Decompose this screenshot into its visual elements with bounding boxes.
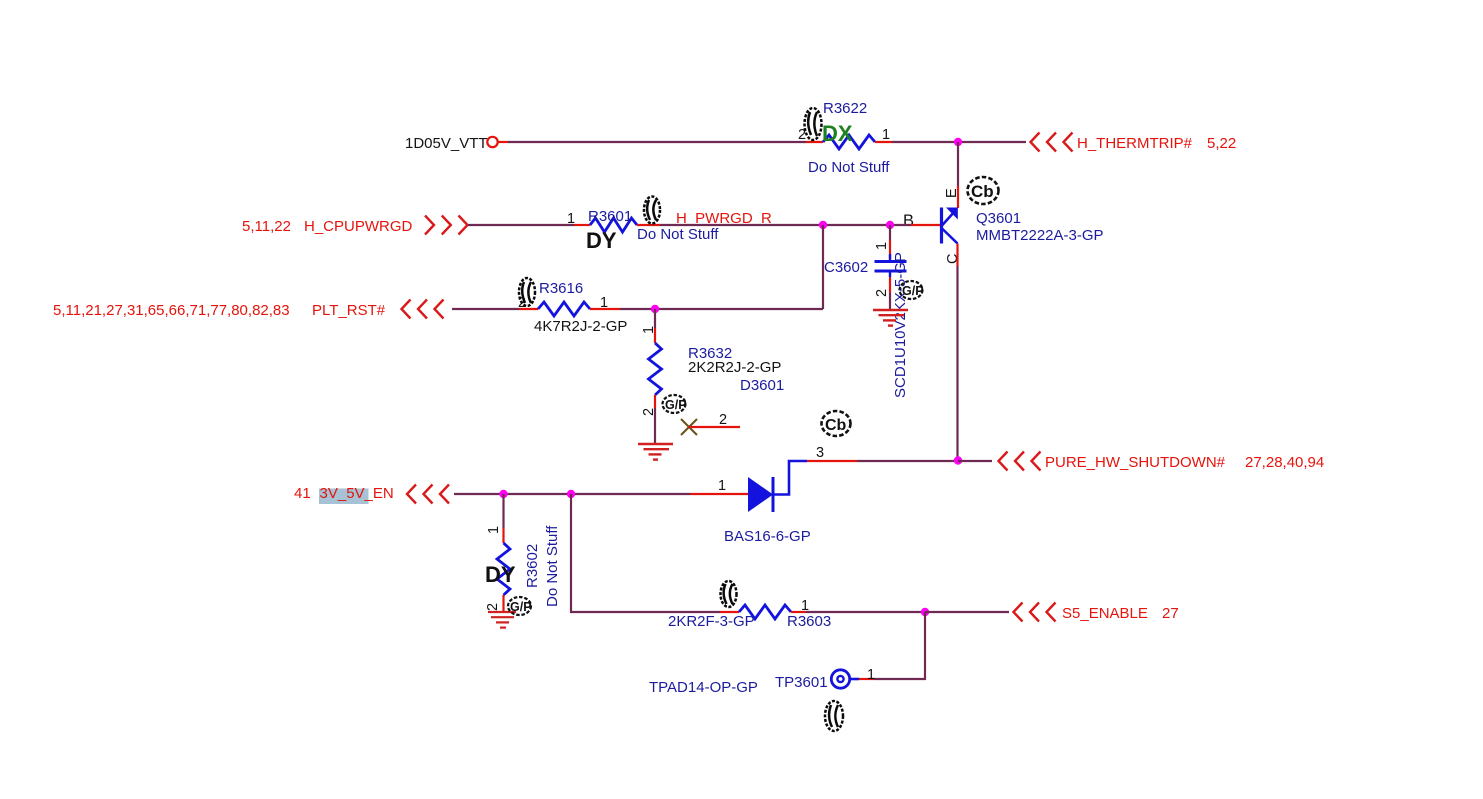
- off-page connector PLT_RST#: [402, 300, 444, 319]
- pin 1 of TP3601: [859, 678, 874, 680]
- off-page connector PURE_HW_SHUTDOWN#: [999, 452, 1041, 471]
- stamp Cb near D3601: [822, 411, 851, 436]
- svg-text:1: 1: [641, 326, 657, 334]
- junction node S5_ENABLE branch: [567, 490, 575, 498]
- svg-text:D3601: D3601: [740, 377, 784, 394]
- svg-text:1: 1: [867, 667, 875, 683]
- junction node to PLT_RST branch: [819, 221, 827, 229]
- junction node S5_ENABLE: [921, 608, 929, 616]
- svg-text:G/P: G/P: [902, 284, 924, 298]
- wire C3602 to ground: [889, 293, 891, 309]
- wire R3616 to H_PWRGD node: [620, 308, 823, 310]
- svg-text:41: 41: [294, 485, 311, 502]
- svg-text:2K2R2J-2-GP: 2K2R2J-2-GP: [688, 359, 781, 376]
- svg-text:SCD1U10V2KX-5-GP: SCD1U10V2KX-5-GP: [892, 252, 909, 398]
- net label S5_ENABLE 27: [1062, 605, 1179, 622]
- off-page connector S5_ENABLE: [1014, 603, 1056, 622]
- net label 5,11,22 H_CPUPWRGD: [242, 218, 413, 235]
- transistor Q3601: [942, 208, 958, 244]
- svg-text:PLT_RST#: PLT_RST#: [312, 302, 386, 319]
- pin 1 of R3632: [654, 328, 656, 343]
- stamp near R3603: [721, 581, 737, 607]
- svg-text:G/P: G/P: [665, 398, 687, 412]
- svg-text:1: 1: [567, 211, 575, 227]
- stamp G/P near R3632: [663, 395, 687, 413]
- off-page connector 3V_5V_EN: [407, 485, 449, 504]
- wire 3V_5V_EN: [454, 493, 571, 495]
- svg-text:R3601: R3601: [588, 208, 632, 225]
- wire junction down to C3602: [889, 225, 891, 240]
- svg-text:Do Not Stuff: Do Not Stuff: [808, 159, 890, 176]
- svg-text:BAS16-6-GP: BAS16-6-GP: [724, 528, 811, 545]
- resistor R3616: [538, 302, 590, 316]
- wire R3603 to junction: [806, 611, 925, 613]
- wire R3601 to Q3601 base: [660, 224, 911, 226]
- net label 5,11,21,27,31,65,66,71,77,80,82,83 PLT_RST#: [53, 302, 386, 319]
- svg-text:MMBT2222A-3-GP: MMBT2222A-3-GP: [976, 227, 1104, 244]
- wire 3V_5V_EN junction to D3601: [571, 493, 690, 495]
- wire junction to off-page connector: [958, 460, 992, 462]
- stamp G/P near R3602: [508, 597, 532, 615]
- stamp near R3601: [644, 197, 660, 224]
- svg-text:TP3601: TP3601: [775, 674, 828, 691]
- net label H_THERMTRIP# 5,22: [1077, 135, 1236, 152]
- pin 1 of C3602: [889, 240, 891, 259]
- capacitor C3602: [875, 254, 907, 277]
- wire PLT_RST# to R3616: [452, 308, 519, 310]
- svg-text:H_THERMTRIP#: H_THERMTRIP#: [1077, 135, 1193, 152]
- wire junction down to Q3601 emitter: [957, 142, 959, 186]
- wire H_CPUPWRGD to R3601: [468, 224, 574, 226]
- svg-text:1D05V_VTT: 1D05V_VTT: [405, 135, 488, 152]
- svg-text:DY: DY: [586, 228, 617, 253]
- pin E of Q3601: [957, 186, 959, 208]
- stamp below TP3601: [825, 701, 843, 731]
- svg-text:R3603: R3603: [787, 613, 831, 630]
- pin 2 of C3602: [889, 277, 891, 293]
- wire R3632 to ground: [654, 408, 656, 443]
- svg-text:5,11,21,27,31,65,66,71,77,80,8: 5,11,21,27,31,65,66,71,77,80,82,83: [53, 302, 290, 319]
- svg-text:27,28,40,94: 27,28,40,94: [1245, 454, 1324, 471]
- svg-text:2: 2: [485, 603, 501, 611]
- svg-text:E: E: [944, 188, 960, 198]
- wire junction down to R3602: [502, 494, 504, 528]
- wire junction down and right to R3603: [571, 494, 720, 612]
- resistor R3602 (Do Not Stuff, DY): [497, 543, 510, 595]
- svg-text:1: 1: [486, 526, 502, 534]
- svg-text:R3622: R3622: [823, 100, 867, 117]
- svg-text:TPAD14-OP-GP: TPAD14-OP-GP: [649, 679, 758, 696]
- stamp near R3622: [805, 108, 822, 140]
- svg-text:3: 3: [816, 445, 824, 461]
- wire junction down to R3632: [654, 309, 656, 328]
- net label 41 3V_5V_EN (highlighted): [294, 485, 394, 504]
- svg-text:2: 2: [874, 289, 890, 297]
- svg-text:R3616: R3616: [539, 280, 583, 297]
- stamp near R3616: [519, 278, 535, 306]
- junction node PURE_HW_SHUTDOWN: [954, 456, 962, 464]
- no-connect X on D3601 pin 2: [681, 419, 697, 435]
- ground under R3632: [638, 444, 673, 460]
- svg-text:Q3601: Q3601: [976, 210, 1021, 227]
- ground under R3602: [488, 612, 516, 628]
- svg-text:R3602: R3602: [524, 544, 541, 588]
- pin 1 of R3603: [791, 611, 806, 613]
- junction node R3632/PLT_RST: [651, 305, 659, 313]
- junction node to C3602 branch: [886, 221, 894, 229]
- test point TP3601: [831, 670, 859, 688]
- ground under C3602: [873, 310, 908, 326]
- junction node H_THERMTRIP: [954, 138, 962, 146]
- svg-text:C3602: C3602: [824, 259, 868, 276]
- wire D3601 to PURE_HW_SHUTDOWN junction: [857, 460, 958, 462]
- svg-text:4K7R2J-2-GP: 4K7R2J-2-GP: [534, 318, 627, 335]
- svg-text:1: 1: [874, 242, 890, 250]
- wire junction down and left to TP3601: [874, 612, 925, 679]
- stamp G/P near C3602: [900, 281, 924, 299]
- pin 2 of D3601: [689, 426, 740, 428]
- pin 2 of R3632: [654, 395, 656, 408]
- wire R3622 to junction: [892, 141, 1026, 143]
- resistor R3632: [649, 343, 662, 395]
- svg-text:2: 2: [719, 412, 727, 428]
- svg-text:Do Not Stuff: Do Not Stuff: [544, 525, 561, 607]
- resistor R3601 (Do Not Stuff, DY): [574, 208, 719, 253]
- svg-text:S5_ENABLE: S5_ENABLE: [1062, 605, 1148, 622]
- pin 1 of R3602: [502, 528, 504, 543]
- svg-text:H_CPUPWRGD: H_CPUPWRGD: [304, 218, 413, 235]
- svg-text:DY: DY: [485, 562, 516, 587]
- svg-text:1: 1: [882, 127, 890, 143]
- svg-text:Do Not Stuff: Do Not Stuff: [637, 226, 719, 243]
- pin 2 of R3616: [519, 308, 538, 310]
- off-page connector H_THERMTRIP#: [1031, 133, 1073, 152]
- svg-text:3V_5V_EN: 3V_5V_EN: [320, 485, 394, 502]
- resistor R3622 (Do Not Stuff, DX): [806, 100, 892, 176]
- svg-text:Cb: Cb: [971, 182, 994, 201]
- svg-text:G/P: G/P: [510, 600, 532, 614]
- svg-text:27: 27: [1162, 605, 1179, 622]
- svg-text:1: 1: [718, 478, 726, 494]
- svg-text:5,22: 5,22: [1207, 135, 1236, 152]
- svg-text:5,11,22: 5,11,22: [242, 218, 291, 235]
- wire junction to off-page connector: [925, 611, 1009, 613]
- off-page connector H_CPUPWRGD: [425, 216, 468, 235]
- svg-text:B: B: [903, 212, 914, 230]
- net label PURE_HW_SHUTDOWN# 27,28,40,94: [1045, 454, 1324, 471]
- svg-text:Cb: Cb: [825, 417, 847, 434]
- pin 2 of R3603: [720, 611, 739, 613]
- pin 1 of R3616: [590, 308, 620, 310]
- svg-text:DX: DX: [822, 121, 853, 146]
- power terminal 1D05V_VTT: [405, 135, 508, 152]
- junction node R3602 branch: [499, 490, 507, 498]
- wire up to H_PWRGD junction: [822, 225, 824, 309]
- svg-text:PURE_HW_SHUTDOWN#: PURE_HW_SHUTDOWN#: [1045, 454, 1226, 471]
- wire collector down to PURE_HW_SHUTDOWN junction: [956, 266, 958, 460]
- label Q3601 MMBT2222A-3-GP: [976, 210, 1104, 244]
- wire 1D05V_VTT to R3622: [508, 141, 806, 143]
- svg-text:1: 1: [600, 295, 608, 311]
- pin 1 of D3601: [690, 493, 748, 495]
- stamp Cb near Q3601: [968, 177, 999, 204]
- resistor R3603: [739, 605, 791, 619]
- pin 2 of R3602: [502, 595, 504, 611]
- svg-text:2KR2F-3-GP: 2KR2F-3-GP: [668, 613, 755, 630]
- diode D3601 BAS16: [748, 461, 807, 512]
